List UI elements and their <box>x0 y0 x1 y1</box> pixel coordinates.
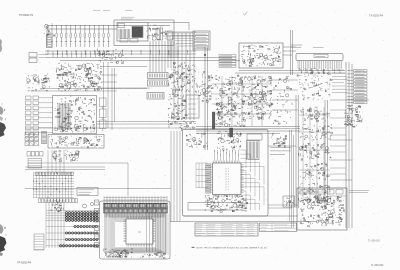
oscillator crystal bars <box>157 28 159 40</box>
wires X401 area to right <box>268 204 298 206</box>
wire keyboard verticals <box>46 200 64 248</box>
box around oscillator group <box>167 31 173 40</box>
relay grid block <box>25 133 39 146</box>
IC X101 inner frame <box>117 23 148 42</box>
wire band above enclosure <box>104 196 167 203</box>
power regulator block frame <box>239 43 283 68</box>
vertical wires amp to matrix <box>48 150 64 172</box>
wire long horizontal left 2 <box>25 188 171 190</box>
link wires to right bus <box>330 110 346 196</box>
switching cluster 2 <box>300 124 332 140</box>
IC X501 LCD driver body <box>126 219 153 244</box>
box below X401 <box>188 203 242 211</box>
vertical wires from X101 down <box>150 41 171 72</box>
matrix wiring grid <box>34 172 75 198</box>
display unit enclosure <box>100 201 171 259</box>
IC X301 surrounding components <box>55 96 96 132</box>
tuning pack cluster 3 <box>300 213 342 227</box>
component cluster 272-293 <box>273 77 292 124</box>
transformer T101 <box>47 35 53 48</box>
junction node <box>204 54 206 56</box>
component cluster right of control block <box>271 134 287 148</box>
vertical wires x289-293 <box>289 130 291 221</box>
IC X101 centre dark section <box>132 27 143 38</box>
wire fan below CN901 <box>298 66 342 73</box>
vertical wires from CN901 top <box>290 30 292 75</box>
connector pin boxes column <box>26 96 45 135</box>
key switch matrix dense rows <box>65 212 98 222</box>
trimmer box VR1 <box>186 95 199 118</box>
transistor cluster Q101 <box>45 24 55 36</box>
dark electrolytic capacitor bar <box>212 112 215 129</box>
IC X401 pins <box>211 161 244 198</box>
tuning pack top row boxes <box>300 190 343 195</box>
wire horizontal y66 <box>100 66 147 68</box>
cluster above X401 <box>186 133 207 148</box>
wire left-mid long horizontals <box>40 88 147 90</box>
text labels right of control block <box>270 148 291 155</box>
svg-text:NOTE : PHOTO TRANSISTOR IS BUI: NOTE : PHOTO TRANSISTOR IS BUILT IN LCD … <box>197 247 268 250</box>
parts list table T1 text <box>196 225 255 236</box>
ticks on lower bus <box>48 50 188 55</box>
wire grid through centre cluster <box>212 76 272 126</box>
page edge scan mark small <box>0 39 2 52</box>
dark capacitor bar 2 <box>230 128 233 137</box>
IC X101 block outer <box>114 20 174 46</box>
power regulator components <box>241 45 281 67</box>
svg-text:TP-8292-P4: TP-8292-P4 <box>19 13 34 17</box>
IC X101 right section <box>146 25 167 40</box>
audio amp contents <box>49 136 102 148</box>
wire drops below band <box>105 213 165 218</box>
switching cluster 5 <box>299 183 331 203</box>
routing left of X401 <box>196 163 208 188</box>
IC X501 pins <box>124 217 156 247</box>
resistor array RA1 <box>148 73 169 79</box>
key switch row 6 <box>65 232 98 234</box>
text above IC X101 <box>121 17 134 19</box>
photo transistor Q501 <box>83 204 87 208</box>
audio amp long box <box>48 135 104 149</box>
faint header text 2 <box>103 10 110 12</box>
connector CN901 pins <box>298 61 342 66</box>
vertical bus right of top band <box>174 33 194 120</box>
routing right of X401 <box>241 150 265 210</box>
parts list table T1 <box>195 223 258 236</box>
control block frame <box>183 130 269 217</box>
resistor array RA3 <box>147 93 164 100</box>
matrix junction dots <box>33 173 72 198</box>
connector row below matrix <box>39 199 78 203</box>
svg-text:TX-8292-P4: TX-8292-P4 <box>369 14 384 18</box>
voltage table T2 text <box>261 225 292 231</box>
wiring web below connector <box>297 68 332 100</box>
op-amp U302 <box>84 138 89 144</box>
wire keyboard horizontals <box>46 211 100 246</box>
revision check mark <box>243 12 247 15</box>
vertical wire bundle B <box>147 203 156 252</box>
components bottom-right of enclosure <box>141 252 166 259</box>
key switch row 5 <box>74 225 97 227</box>
components under amp box <box>52 150 80 161</box>
voltage table T2 <box>260 223 297 232</box>
wires pin boxes to X301 <box>44 98 53 133</box>
signal label boxes mid <box>219 55 236 68</box>
cluster above X401 B <box>217 132 242 151</box>
component cluster centre-left column <box>196 72 213 103</box>
IC X301 inner hatch <box>58 103 70 130</box>
wire top bus <box>47 25 170 27</box>
wire bus under centre area <box>196 126 300 128</box>
corner box bottom-right of control block <box>283 196 295 207</box>
switching cluster 4 <box>300 163 329 180</box>
label box right of matrix <box>77 188 98 196</box>
op-amp U301 <box>60 138 65 144</box>
connector CN901 title box <box>314 55 328 58</box>
tuning pack cluster 2 <box>321 196 345 215</box>
resistor array RA2 <box>148 80 169 86</box>
tuning pack block frame <box>297 188 347 230</box>
wire y146 to right bus <box>268 145 296 147</box>
second drop row <box>53 51 106 58</box>
resistor drop lines R101-R113 <box>51 25 109 47</box>
IC X401 microcontroller body <box>213 163 242 195</box>
component cluster bottom of top band <box>97 49 124 64</box>
sub-IC hatch block <box>247 141 260 160</box>
wire long horizontal left <box>28 162 128 164</box>
bracket label right of CN901 text <box>313 47 324 49</box>
wire verticals x103-108 <box>103 62 105 128</box>
connector CN901 body <box>296 54 343 61</box>
legend text upper-left <box>39 55 48 58</box>
wire lower bus of top band <box>45 50 196 52</box>
wire regulator to connector <box>283 46 296 48</box>
small box below centre <box>247 134 262 140</box>
vertical bus right-centre <box>295 95 297 208</box>
text labels above CN901 <box>291 45 302 47</box>
IC X301 cluster frame <box>53 96 97 134</box>
components right-top of column <box>185 65 196 92</box>
keyboard legend table <box>34 234 44 250</box>
signal name labels column <box>347 70 367 104</box>
wires right edge <box>330 99 369 101</box>
page edge scan mark mid <box>0 104 6 138</box>
faint header text 3 <box>125 10 133 12</box>
routing nest around LCD driver <box>105 214 167 254</box>
component cluster right mid <box>345 106 363 128</box>
dense row below X401 <box>205 195 248 212</box>
tuning pack cluster 1 <box>300 196 328 212</box>
page edge scan mark lower <box>0 224 7 256</box>
wires right inside enclosure <box>158 214 168 255</box>
wire X101 to right <box>148 22 189 24</box>
LCD connector band row1 <box>104 203 168 208</box>
filter column right of X301 <box>100 98 107 131</box>
wire bottom bus <box>170 221 317 223</box>
IC X401 vertical label text <box>226 168 229 190</box>
wires into X401 top <box>214 150 239 161</box>
note text <box>192 246 195 248</box>
pin name column left of X401 <box>206 164 211 194</box>
switching cluster 3 <box>298 143 331 160</box>
components below column <box>168 120 196 130</box>
LCD connector band row2 <box>104 209 168 213</box>
text right of tuning pack <box>349 191 369 193</box>
dense column x168-185 <box>168 62 187 120</box>
wire bus under regulator <box>239 70 345 72</box>
stair wires to label stack <box>168 33 193 58</box>
svg-text:IC: IC <box>138 231 141 234</box>
key switch row 8 <box>59 245 98 247</box>
dense cluster upper-left B <box>56 63 102 91</box>
IC X101 label box <box>118 24 125 28</box>
wire rows y167-170 <box>25 166 105 168</box>
wire grid right column <box>299 107 330 203</box>
wires centre to right <box>272 79 298 81</box>
matrix top boxes <box>36 172 74 175</box>
switch row boxes <box>27 152 43 157</box>
transistor cluster upper-left <box>26 74 50 91</box>
faint header text 1 <box>93 10 100 12</box>
vertical wire bundle A <box>171 131 180 222</box>
transistor amplifier cluster B <box>245 76 273 120</box>
legend table small <box>28 159 42 169</box>
wire mid horizontals <box>97 121 196 123</box>
svg-text:TL-639-002: TL-639-002 <box>371 264 384 267</box>
signal label stack X201 <box>193 31 210 50</box>
legend boxes upper-left <box>29 53 37 58</box>
pin label boxes left of enclosure <box>94 200 99 248</box>
switching cluster 1 <box>300 107 330 121</box>
svg-text:TL-639-002: TL-639-002 <box>368 241 381 243</box>
labels fan right wires <box>332 70 348 92</box>
vertical bus right side <box>345 62 347 228</box>
switch cluster left of keys <box>51 200 64 212</box>
connector strip right of relay grid <box>42 132 47 144</box>
IC X101 left section <box>119 29 130 39</box>
key switch row 7 <box>65 238 98 240</box>
wire from X201 down <box>204 47 206 150</box>
IC X101 bottom boxes <box>120 39 128 43</box>
transistor amplifier cluster A <box>215 75 246 127</box>
svg-text:TP-8292-P4: TP-8292-P4 <box>17 261 32 265</box>
wires to centre from upper-left <box>101 74 117 76</box>
components bottom of enclosure <box>103 249 133 258</box>
